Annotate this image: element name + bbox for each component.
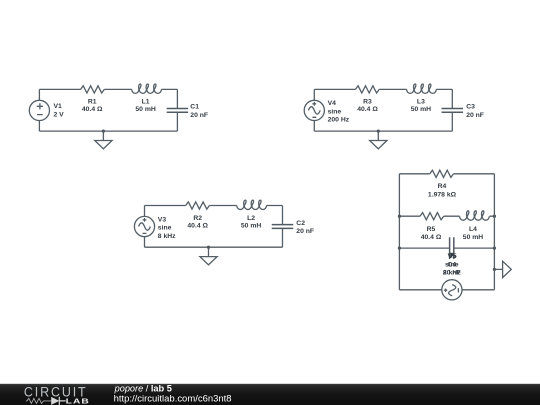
svg-text:LAB: LAB: [66, 396, 90, 405]
svg-text:8 kHz: 8 kHz: [158, 233, 176, 240]
svg-text:http://circuitlab.com/c6n3nt8: http://circuitlab.com/c6n3nt8: [114, 394, 232, 404]
svg-text:200 Hz: 200 Hz: [328, 117, 350, 124]
svg-text:C3: C3: [466, 104, 475, 111]
svg-text:50 mH: 50 mH: [135, 106, 155, 113]
svg-text:R3: R3: [363, 99, 372, 106]
svg-text:R2: R2: [193, 215, 202, 222]
svg-text:V3: V3: [158, 216, 167, 223]
svg-text:V5: V5: [448, 253, 457, 260]
svg-text:40.4 Ω: 40.4 Ω: [187, 222, 208, 229]
svg-text:2 V: 2 V: [54, 111, 65, 118]
svg-text:C1: C1: [190, 104, 199, 111]
svg-text:V4: V4: [328, 100, 337, 107]
svg-text:popore / lab 5: popore / lab 5: [114, 384, 172, 394]
svg-text:1.978 kΩ: 1.978 kΩ: [428, 192, 457, 199]
svg-text:sine: sine: [158, 225, 172, 232]
svg-text:40.4 Ω: 40.4 Ω: [82, 106, 103, 113]
svg-text:L3: L3: [417, 99, 425, 106]
svg-text:R1: R1: [88, 99, 97, 106]
svg-text:40.4 Ω: 40.4 Ω: [421, 234, 442, 241]
svg-text:20 nF: 20 nF: [190, 112, 208, 119]
svg-text:20 nF: 20 nF: [296, 228, 314, 235]
svg-text:R4: R4: [438, 183, 447, 190]
svg-text:20 nF: 20 nF: [443, 269, 461, 276]
svg-text:L4: L4: [469, 226, 477, 233]
svg-text:L2: L2: [247, 215, 255, 222]
svg-text:50 mH: 50 mH: [411, 106, 431, 113]
svg-text:40.4 Ω: 40.4 Ω: [357, 106, 378, 113]
svg-text:V1: V1: [54, 103, 63, 110]
svg-text:50 mH: 50 mH: [241, 222, 261, 229]
svg-text:20 nF: 20 nF: [466, 112, 484, 119]
svg-text:50 mH: 50 mH: [463, 234, 483, 241]
svg-text:L1: L1: [142, 99, 150, 106]
svg-text:R5: R5: [427, 226, 436, 233]
svg-text:C4: C4: [447, 261, 456, 268]
svg-text:sine: sine: [328, 108, 342, 115]
svg-text:C2: C2: [296, 220, 305, 227]
